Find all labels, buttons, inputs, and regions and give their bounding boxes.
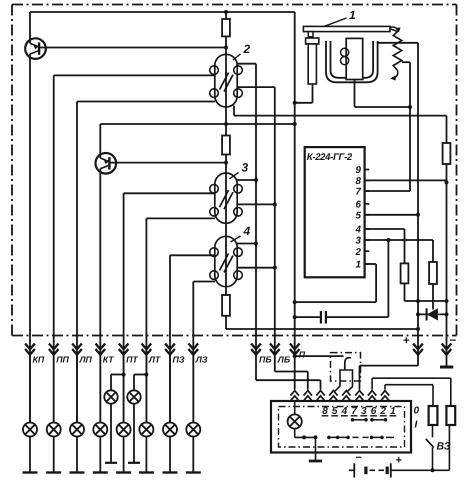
svg-text:8: 8	[356, 176, 362, 187]
svg-text:0: 0	[414, 406, 420, 417]
svg-text:3: 3	[242, 161, 249, 175]
svg-text:КП: КП	[33, 355, 45, 365]
svg-text:КТ: КТ	[103, 355, 115, 365]
svg-text:ПБ: ПБ	[259, 355, 272, 365]
svg-text:2: 2	[355, 247, 362, 258]
svg-text:−: −	[450, 335, 457, 347]
svg-text:ЛТ: ЛТ	[148, 355, 161, 365]
svg-text:3: 3	[356, 236, 362, 247]
svg-text:7: 7	[356, 187, 362, 198]
svg-text:4: 4	[243, 224, 251, 238]
svg-text:ЛП: ЛП	[79, 355, 93, 365]
svg-text:ЛБ: ЛБ	[277, 355, 290, 365]
svg-text:9: 9	[356, 165, 362, 176]
svg-text:2: 2	[243, 42, 251, 56]
svg-text:ПЗ: ПЗ	[173, 355, 185, 365]
svg-text:5: 5	[356, 210, 362, 221]
svg-text:ПП: ПП	[56, 355, 69, 365]
svg-text:I: I	[415, 420, 418, 431]
svg-text:−: −	[356, 452, 362, 464]
svg-text:6: 6	[356, 199, 362, 210]
svg-text:ПТ: ПТ	[126, 355, 138, 365]
svg-text:П: П	[299, 350, 306, 360]
svg-text:+: +	[396, 455, 402, 467]
svg-text:1: 1	[349, 8, 356, 22]
svg-text:+: +	[403, 335, 410, 347]
svg-text:1: 1	[356, 260, 361, 271]
svg-text:ЛЗ: ЛЗ	[195, 355, 208, 365]
svg-text:4: 4	[355, 225, 362, 236]
svg-text:К-224-ГГ-2: К-224-ГГ-2	[307, 152, 353, 163]
